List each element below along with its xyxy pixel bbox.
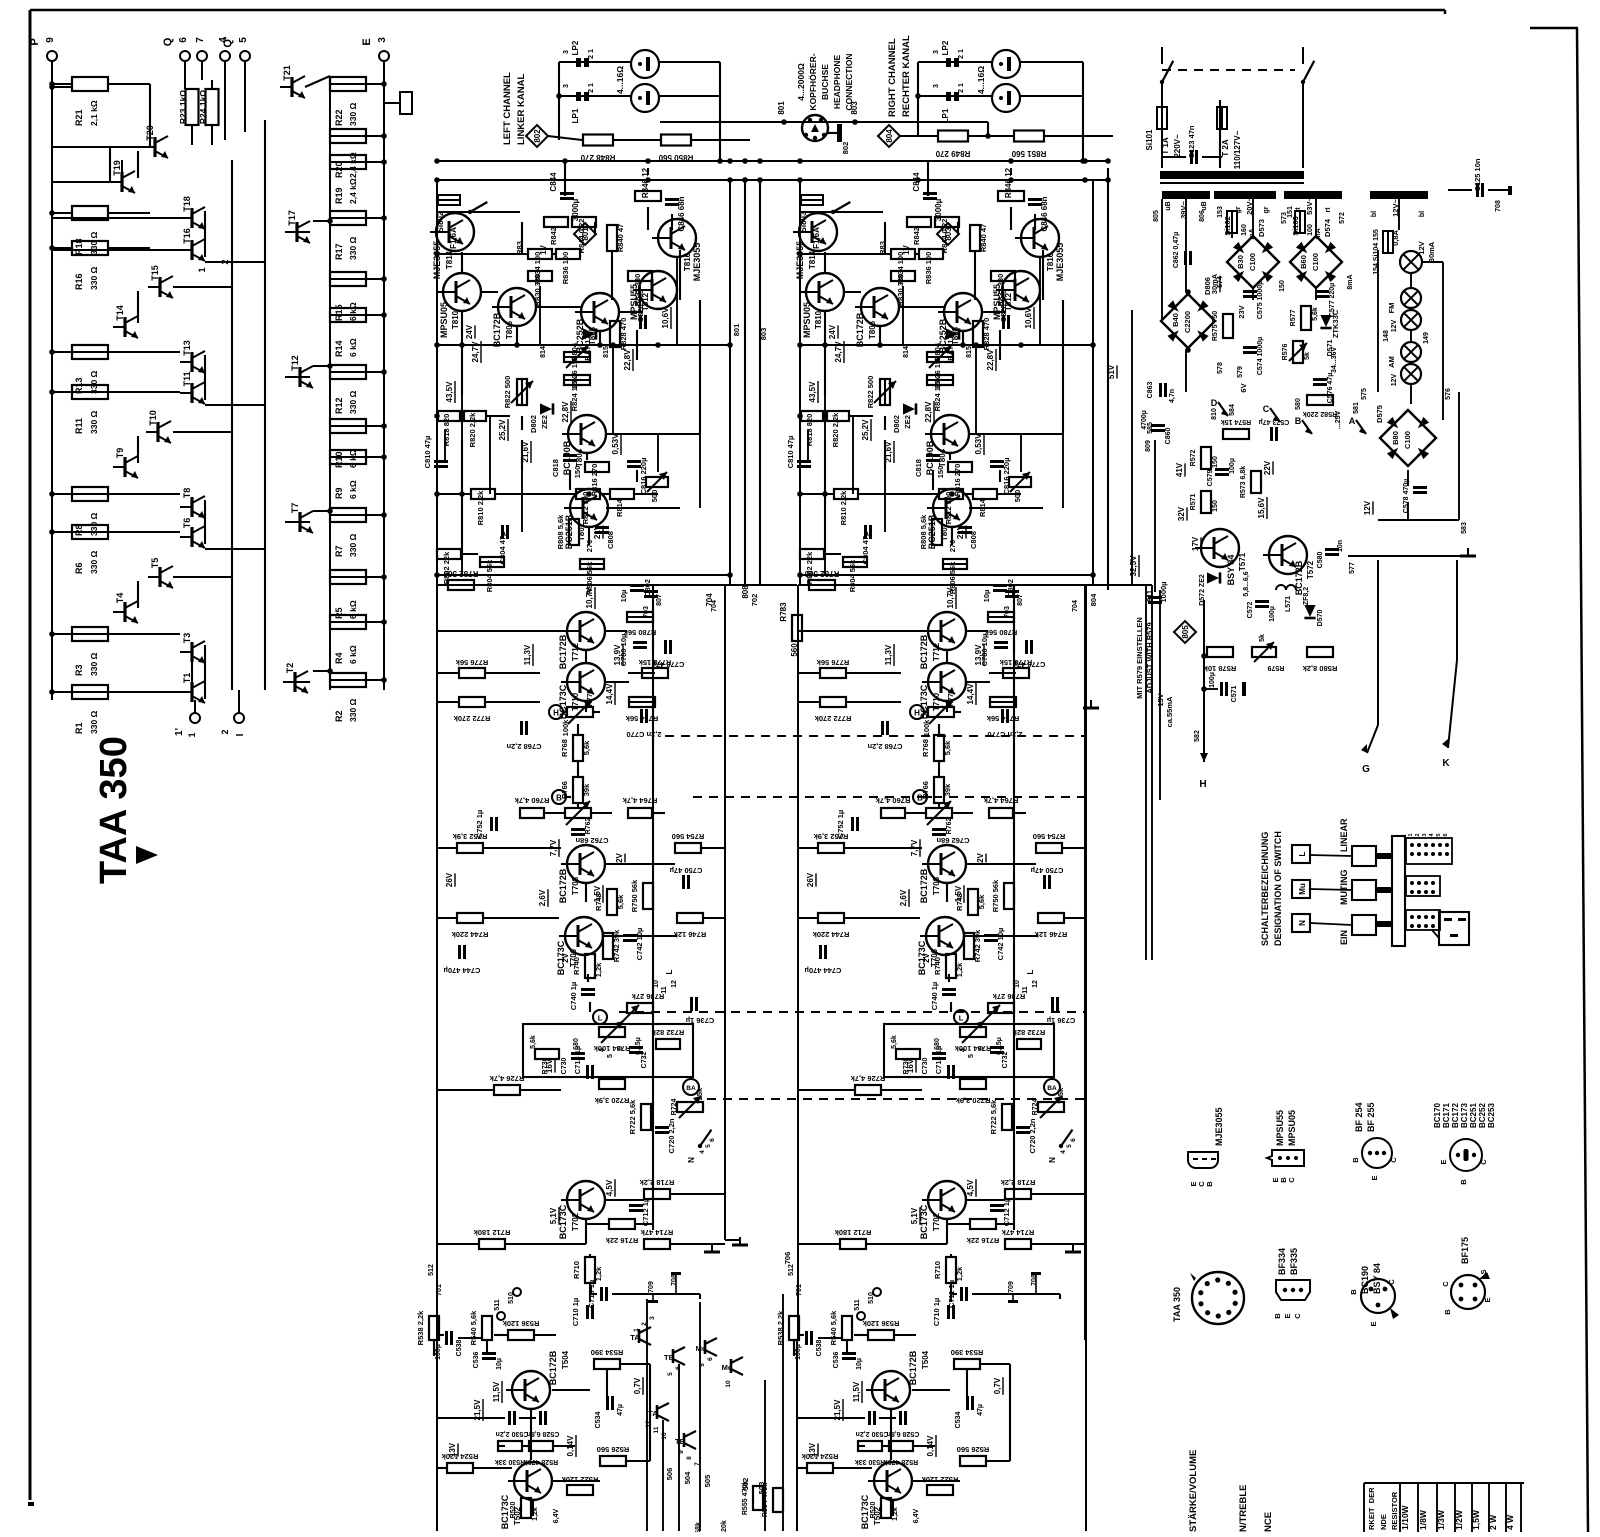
- svg-text:I: I: [235, 733, 246, 736]
- svg-text:BC172B: BC172B: [492, 312, 502, 347]
- svg-text:HEADPHONE: HEADPHONE: [832, 55, 842, 110]
- svg-text:R526 560: R526 560: [957, 1445, 990, 1454]
- svg-text:R522 120k: R522 120k: [561, 1475, 599, 1484]
- svg-text:25k: 25k: [695, 1087, 704, 1100]
- svg-text:T804: T804: [938, 448, 947, 467]
- svg-text:16V: 16V: [545, 1058, 554, 1073]
- svg-text:NCE: NCE: [1263, 1512, 1274, 1532]
- svg-text:R744 220k: R744 220k: [812, 930, 850, 939]
- svg-text:2 1: 2 1: [588, 83, 595, 93]
- svg-text:702: 702: [750, 594, 759, 607]
- svg-text:806: 806: [1199, 210, 1206, 222]
- svg-text:C750 47µ: C750 47µ: [670, 866, 703, 875]
- svg-text:C100: C100: [1403, 431, 1412, 449]
- svg-text:Si101: Si101: [1145, 129, 1154, 150]
- svg-text:RESISTOR: RESISTOR: [1390, 1491, 1399, 1530]
- svg-text:R716 22k: R716 22k: [605, 1236, 638, 1245]
- svg-text:L: L: [959, 1014, 964, 1023]
- svg-text:579: 579: [1237, 366, 1244, 378]
- svg-text:C2200: C2200: [1183, 311, 1192, 333]
- svg-text:100µ: 100µ: [1229, 458, 1236, 474]
- svg-text:T712: T712: [571, 642, 580, 661]
- svg-text:804: 804: [885, 129, 894, 143]
- svg-text:R772 270k: R772 270k: [453, 714, 491, 723]
- svg-text:R578 10k: R578 10k: [1203, 664, 1236, 673]
- svg-text:41V: 41V: [1175, 462, 1184, 477]
- svg-text:0,53V: 0,53V: [611, 433, 620, 455]
- svg-text:R524 120k: R524 120k: [441, 1452, 479, 1461]
- svg-text:C: C: [1389, 1157, 1398, 1163]
- svg-text:BC172B: BC172B: [855, 312, 865, 347]
- svg-text:5k: 5k: [1259, 634, 1266, 642]
- svg-text:150: 150: [1212, 500, 1219, 512]
- svg-text:3: 3: [563, 84, 570, 88]
- svg-text:151: 151: [1287, 206, 1294, 218]
- svg-text:2 W: 2 W: [1488, 1514, 1498, 1530]
- svg-text:1000µ: 1000µ: [1159, 581, 1168, 602]
- svg-text:1,5W: 1,5W: [1471, 1509, 1481, 1530]
- svg-text:11: 11: [1022, 986, 1029, 994]
- svg-text:C579: C579: [1207, 470, 1214, 487]
- svg-text:BC252: BC252: [1478, 1103, 1487, 1128]
- svg-text:R540 5,6k: R540 5,6k: [469, 1310, 478, 1345]
- svg-text:LP2: LP2: [941, 40, 950, 55]
- svg-text:R768: R768: [560, 739, 569, 757]
- svg-text:C: C: [1441, 1281, 1450, 1287]
- svg-text:B: B: [1351, 1157, 1360, 1163]
- svg-text:R762: R762: [946, 818, 953, 835]
- svg-text:C740 1µ: C740 1µ: [569, 982, 578, 1011]
- svg-text:R752 3,9k: R752 3,9k: [452, 832, 487, 841]
- svg-text:R534 390: R534 390: [591, 1348, 624, 1357]
- svg-text:R748: R748: [955, 893, 964, 911]
- svg-text:0,7V: 0,7V: [633, 1377, 642, 1394]
- svg-text:R760 4,7k: R760 4,7k: [514, 796, 549, 805]
- svg-text:BF334: BF334: [1277, 1248, 1287, 1275]
- svg-text:C750 47µ: C750 47µ: [1031, 866, 1064, 875]
- svg-text:P: P: [29, 38, 41, 45]
- svg-text:6: 6: [709, 1138, 716, 1142]
- svg-text:7: 7: [195, 37, 206, 43]
- svg-text:330 Ω: 330 Ω: [89, 266, 99, 290]
- svg-text:C863: C863: [1147, 382, 1154, 399]
- svg-text:5,1V: 5,1V: [549, 1207, 558, 1224]
- svg-text:12V: 12V: [1391, 319, 1398, 332]
- svg-text:uB: uB: [1165, 201, 1172, 210]
- svg-text:1: 1: [633, 1328, 640, 1332]
- svg-text:Mu: Mu: [1298, 883, 1307, 895]
- svg-text:12: 12: [671, 980, 678, 988]
- svg-text:12V: 12V: [1363, 500, 1372, 515]
- svg-text:Mo: Mo: [722, 1363, 733, 1372]
- svg-text:804: 804: [1089, 593, 1098, 606]
- svg-text:22V: 22V: [1263, 460, 1272, 475]
- svg-text:R524 120k: R524 120k: [801, 1452, 839, 1461]
- svg-text:BC170: BC170: [1433, 1103, 1442, 1128]
- svg-text:bl: bl: [1371, 211, 1378, 217]
- svg-text:T810: T810: [451, 310, 460, 329]
- svg-text:MJE3055: MJE3055: [795, 241, 805, 280]
- svg-text:C: C: [1387, 1279, 1396, 1285]
- svg-text:100k: 100k: [561, 719, 570, 737]
- svg-text:T3: T3: [182, 633, 192, 644]
- svg-text:R12: R12: [334, 397, 344, 414]
- svg-text:R577: R577: [1290, 310, 1297, 327]
- svg-text:2,6V: 2,6V: [538, 889, 547, 906]
- svg-text:R851 560: R851 560: [1011, 149, 1046, 158]
- svg-text:R580 8,2k: R580 8,2k: [1302, 664, 1337, 673]
- svg-text:C100: C100: [1248, 253, 1257, 271]
- svg-text:BC172B: BC172B: [548, 1350, 558, 1385]
- svg-text:R754 560: R754 560: [1033, 832, 1066, 841]
- svg-text:R724: R724: [671, 1099, 678, 1116]
- svg-text:BC172B: BC172B: [558, 634, 568, 669]
- svg-text:C768 2,2n: C768 2,2n: [867, 742, 902, 751]
- svg-text:580: 580: [1295, 398, 1302, 410]
- svg-text:R746 12k: R746 12k: [1034, 930, 1067, 939]
- svg-text:R810 2,2k: R810 2,2k: [839, 490, 848, 525]
- svg-text:D570: D570: [1317, 610, 1324, 627]
- svg-text:11,5V: 11,5V: [492, 1381, 501, 1402]
- svg-text:4...16Ω: 4...16Ω: [976, 66, 986, 94]
- svg-text:E: E: [1483, 1297, 1492, 1302]
- svg-text:B30: B30: [1236, 255, 1245, 269]
- svg-text:26V: 26V: [445, 872, 454, 887]
- svg-text:25,2V: 25,2V: [861, 419, 870, 441]
- svg-text:R740: R740: [933, 957, 942, 975]
- svg-text:330 Ω: 330 Ω: [348, 236, 358, 260]
- svg-text:R770: R770: [948, 690, 955, 707]
- svg-text:2,4 kΩ: 2,4 kΩ: [348, 178, 358, 204]
- svg-text:1/8W: 1/8W: [1418, 1509, 1428, 1530]
- svg-text:R750 56k: R750 56k: [630, 879, 639, 912]
- svg-text:T702: T702: [571, 1212, 580, 1231]
- svg-text:R822 500: R822 500: [866, 376, 875, 409]
- svg-text:T7: T7: [290, 503, 300, 514]
- svg-text:MJE3055: MJE3055: [432, 241, 442, 280]
- svg-text:100k: 100k: [922, 719, 931, 737]
- svg-text:R724: R724: [1032, 1099, 1039, 1116]
- svg-text:R579: R579: [1268, 664, 1285, 671]
- svg-text:L: L: [665, 969, 674, 974]
- svg-text:16V: 16V: [906, 1058, 915, 1073]
- svg-text:11,5V: 11,5V: [852, 1381, 861, 1402]
- svg-text:1: 1: [197, 267, 207, 272]
- svg-text:581: 581: [1353, 402, 1360, 414]
- svg-text:bl: bl: [1419, 211, 1426, 217]
- svg-text:T6: T6: [182, 518, 192, 529]
- svg-text:C762 68n: C762 68n: [575, 836, 608, 845]
- svg-text:5: 5: [1436, 833, 1442, 836]
- svg-text:R8: R8: [74, 524, 84, 536]
- svg-text:1: 1: [1408, 833, 1414, 836]
- svg-text:R822 500: R822 500: [503, 376, 512, 409]
- svg-text:R714 47k: R714 47k: [1001, 1228, 1034, 1237]
- svg-text:47µ: 47µ: [617, 1404, 624, 1416]
- svg-text:2 1: 2 1: [958, 83, 965, 93]
- svg-text:R573 6,8k: R573 6,8k: [1240, 466, 1247, 498]
- svg-text:B40: B40: [1171, 313, 1180, 327]
- svg-text:708: 708: [671, 1274, 678, 1286]
- svg-text:5: 5: [1066, 1144, 1073, 1148]
- svg-text:C844: C844: [549, 172, 558, 192]
- svg-text:802: 802: [841, 142, 850, 155]
- svg-text:39k: 39k: [582, 783, 591, 796]
- svg-text:807: 807: [1017, 594, 1024, 606]
- svg-text:5,6k: 5,6k: [943, 740, 952, 755]
- svg-text:T702: T702: [932, 1212, 941, 1231]
- svg-text:R571: R571: [1190, 494, 1197, 511]
- svg-text:LINKER KANAL: LINKER KANAL: [516, 74, 527, 145]
- svg-text:R716 22k: R716 22k: [966, 1236, 999, 1245]
- svg-text:T710: T710: [571, 692, 580, 711]
- svg-text:R572: R572: [1190, 450, 1197, 467]
- svg-text:6: 6: [978, 1046, 985, 1050]
- svg-text:ZE2: ZE2: [903, 415, 912, 429]
- svg-text:1,2k: 1,2k: [955, 962, 964, 977]
- svg-text:10: 10: [1014, 980, 1021, 988]
- svg-text:807: 807: [656, 594, 663, 606]
- svg-text:8mA: 8mA: [1347, 274, 1354, 289]
- svg-text:120k: 120k: [721, 1520, 728, 1532]
- svg-text:47µ: 47µ: [977, 1404, 984, 1416]
- svg-text:2 1: 2 1: [588, 49, 595, 59]
- svg-text:1: 1: [187, 732, 197, 737]
- svg-text:C744 470µ: C744 470µ: [805, 966, 842, 975]
- svg-text:RKEIT DER: RKEIT DER: [1367, 1487, 1376, 1530]
- svg-text:5,6k: 5,6k: [891, 1035, 898, 1049]
- svg-text:T2: T2: [285, 663, 295, 674]
- svg-text:701: 701: [796, 1284, 803, 1296]
- svg-text:BC172B: BC172B: [919, 868, 929, 903]
- svg-text:KOPFHÖRER-: KOPFHÖRER-: [808, 53, 818, 110]
- svg-text:T8: T8: [182, 488, 192, 499]
- svg-text:BC172B: BC172B: [558, 868, 568, 903]
- svg-text:R540 5,6k: R540 5,6k: [829, 1310, 838, 1345]
- svg-text:6 kΩ: 6 kΩ: [348, 645, 358, 664]
- svg-text:8: 8: [686, 1456, 693, 1460]
- svg-text:5: 5: [667, 1372, 674, 1376]
- svg-text:C575 1000µ: C575 1000µ: [1257, 281, 1264, 319]
- svg-text:R710: R710: [933, 1261, 942, 1279]
- svg-text:R820 2,2k: R820 2,2k: [831, 412, 840, 447]
- svg-text:T21: T21: [282, 65, 292, 81]
- svg-text:2: 2: [220, 729, 230, 734]
- svg-text:506: 506: [665, 1468, 674, 1481]
- svg-text:Q: Q: [162, 37, 174, 46]
- svg-text:R772 270k: R772 270k: [814, 714, 852, 723]
- svg-text:TA: TA: [630, 1333, 640, 1342]
- svg-text:1/2W: 1/2W: [1454, 1509, 1464, 1530]
- svg-text:C732: C732: [1002, 1052, 1009, 1069]
- svg-text:T16: T16: [182, 228, 192, 244]
- svg-text:150: 150: [573, 466, 582, 479]
- svg-text:C762 68n: C762 68n: [936, 836, 969, 845]
- svg-text:C730: C730: [922, 1058, 929, 1075]
- svg-text:6 kΩ: 6 kΩ: [348, 480, 358, 499]
- svg-text:ZE2: ZE2: [540, 415, 549, 429]
- svg-text:AM: AM: [1387, 356, 1396, 368]
- svg-text:10n: 10n: [1337, 540, 1344, 552]
- svg-text:C862 0,47µ: C862 0,47µ: [1173, 232, 1180, 268]
- svg-text:801: 801: [732, 324, 741, 337]
- svg-text:T816: T816: [683, 252, 692, 271]
- svg-text:ca.55mA: ca.55mA: [1165, 696, 1174, 727]
- svg-text:150: 150: [1212, 456, 1219, 468]
- svg-text:R19: R19: [334, 187, 344, 204]
- svg-text:500: 500: [1013, 490, 1022, 503]
- svg-text:10,7V: 10,7V: [946, 587, 955, 609]
- svg-text:R10: R10: [334, 451, 344, 468]
- svg-text:51V: 51V: [1107, 364, 1116, 379]
- svg-text:1,2k: 1,2k: [594, 1266, 603, 1281]
- svg-text:C720 2,2n: C720 2,2n: [667, 1118, 676, 1153]
- svg-text:C538: C538: [456, 1340, 463, 1357]
- svg-text:R836 100: R836 100: [561, 252, 570, 285]
- svg-text:T712: T712: [932, 642, 941, 661]
- svg-text:R520: R520: [510, 1502, 517, 1519]
- svg-text:LINEAR: LINEAR: [1339, 818, 1349, 852]
- svg-text:MJE3055: MJE3055: [1214, 1107, 1224, 1146]
- svg-text:MJE3055: MJE3055: [1055, 243, 1065, 282]
- svg-text:Q': Q': [222, 36, 234, 48]
- svg-text:30mA: 30mA: [1210, 273, 1219, 294]
- svg-text:3: 3: [563, 50, 570, 54]
- svg-text:C536: C536: [473, 1352, 480, 1369]
- svg-text:2 1: 2 1: [958, 49, 965, 59]
- svg-text:6 kΩ: 6 kΩ: [348, 600, 358, 619]
- svg-text:10µ: 10µ: [856, 1358, 863, 1370]
- svg-text:gr: gr: [1263, 206, 1270, 213]
- svg-text:R744 220k: R744 220k: [451, 930, 489, 939]
- svg-text:10µ: 10µ: [496, 1358, 503, 1370]
- svg-text:TB: TB: [675, 1437, 686, 1446]
- svg-text:5: 5: [238, 37, 249, 43]
- svg-text:C574 1000µ: C574 1000µ: [1257, 337, 1264, 375]
- svg-text:LP1: LP1: [571, 108, 580, 123]
- svg-text:814: 814: [540, 346, 547, 358]
- svg-text:3: 3: [1422, 833, 1428, 836]
- svg-text:22,8V: 22,8V: [986, 349, 995, 371]
- svg-text:FM: FM: [1387, 303, 1396, 314]
- svg-text:T804: T804: [575, 448, 584, 467]
- svg-text:BF175: BF175: [1460, 1237, 1470, 1264]
- svg-text:R526 560: R526 560: [597, 1445, 630, 1454]
- svg-text:BF 255: BF 255: [1366, 1102, 1376, 1132]
- svg-text:BC253: BC253: [1487, 1103, 1496, 1128]
- svg-text:585: 585: [1147, 422, 1154, 434]
- svg-text:D802: D802: [892, 415, 901, 433]
- svg-text:R522 120k: R522 120k: [921, 1475, 959, 1484]
- svg-text:R754 560: R754 560: [672, 832, 705, 841]
- svg-text:3: 3: [649, 1316, 656, 1320]
- svg-text:R720 3,9k: R720 3,9k: [955, 1096, 990, 1105]
- svg-text:D575: D575: [1375, 405, 1384, 423]
- svg-text:MIT R579 EINSTELLEN: MIT R579 EINSTELLEN: [1135, 617, 1144, 699]
- svg-text:330 Ω: 330 Ω: [89, 710, 99, 734]
- svg-text:C125 10n: C125 10n: [1473, 158, 1482, 191]
- svg-text:R530 33k: R530 33k: [495, 1458, 525, 1465]
- svg-text:R21: R21: [74, 109, 84, 126]
- svg-text:578: 578: [1217, 362, 1224, 374]
- svg-text:153: 153: [1217, 206, 1224, 218]
- svg-text:10,6V: 10,6V: [1024, 307, 1033, 329]
- svg-text:E: E: [361, 38, 373, 45]
- svg-text:330 Ω: 330 Ω: [89, 370, 99, 394]
- svg-text:L: L: [1026, 969, 1035, 974]
- svg-text:572: 572: [1339, 212, 1346, 224]
- svg-text:2V: 2V: [615, 852, 624, 862]
- svg-text:43,5V: 43,5V: [445, 381, 454, 403]
- svg-text:ZF8,2: ZF8,2: [1303, 587, 1310, 605]
- svg-text:330 Ω: 330 Ω: [348, 533, 358, 557]
- svg-text:330 Ω: 330 Ω: [348, 102, 358, 126]
- svg-text:SCHALTERBEZEICHNUNG: SCHALTERBEZEICHNUNG: [1260, 832, 1270, 946]
- svg-text:330 Ω: 330 Ω: [89, 550, 99, 574]
- svg-text:810: 810: [1211, 408, 1218, 420]
- svg-text:R740: R740: [572, 957, 581, 975]
- svg-text:708: 708: [1031, 1274, 1038, 1286]
- svg-text:12V: 12V: [1391, 373, 1398, 386]
- svg-text:R778 15k: R778 15k: [638, 658, 671, 667]
- svg-text:32V: 32V: [1177, 506, 1186, 521]
- svg-text:R17: R17: [334, 243, 344, 260]
- svg-text:4: 4: [699, 1150, 706, 1154]
- svg-text:12V: 12V: [1417, 241, 1426, 254]
- svg-text:H: H: [1199, 779, 1206, 790]
- svg-text:R776 56k: R776 56k: [455, 658, 488, 667]
- svg-text:R575 750: R575 750: [1212, 311, 1219, 341]
- svg-text:2V: 2V: [976, 852, 985, 862]
- svg-text:R5: R5: [334, 607, 344, 619]
- svg-text:100µ: 100µ: [1269, 606, 1276, 622]
- svg-text:10,6V: 10,6V: [661, 307, 670, 329]
- svg-text:R842: R842: [912, 227, 921, 245]
- svg-text:4,5V: 4,5V: [966, 1179, 975, 1196]
- svg-text:B80: B80: [1391, 431, 1400, 445]
- svg-text:30mA: 30mA: [1427, 241, 1436, 262]
- svg-text:R712 180k: R712 180k: [834, 1228, 872, 1237]
- svg-text:C: C: [1287, 1177, 1296, 1183]
- svg-text:BC172B: BC172B: [908, 1350, 918, 1385]
- svg-text:5,6k: 5,6k: [616, 894, 625, 909]
- svg-text:R840 47: R840 47: [616, 224, 625, 252]
- svg-text:10,7V: 10,7V: [585, 587, 594, 609]
- svg-text:C730: C730: [561, 1058, 568, 1075]
- svg-text:C718 1µ: C718 1µ: [934, 1046, 943, 1075]
- svg-text:C123 47n: C123 47n: [1187, 125, 1196, 158]
- svg-text:573: 573: [1281, 212, 1288, 224]
- svg-text:R782 560: R782 560: [443, 569, 478, 578]
- svg-text:32,5V: 32,5V: [1129, 555, 1138, 577]
- svg-text:R849 270: R849 270: [935, 149, 970, 158]
- svg-text:D573: D573: [1257, 219, 1266, 237]
- svg-text:504: 504: [683, 1471, 692, 1484]
- svg-text:704: 704: [1072, 600, 1079, 612]
- svg-text:1/10W: 1/10W: [1400, 1504, 1410, 1530]
- svg-text:T12: T12: [290, 355, 300, 371]
- svg-text:11: 11: [661, 986, 668, 994]
- svg-text:T571: T571: [1238, 552, 1247, 571]
- svg-text:C808: C808: [606, 531, 615, 549]
- svg-text:R536 120k: R536 120k: [502, 1319, 540, 1328]
- svg-text:6: 6: [178, 37, 189, 43]
- svg-text:803: 803: [759, 328, 768, 341]
- svg-text:11: 11: [653, 1426, 660, 1433]
- svg-text:708: 708: [1495, 200, 1502, 212]
- svg-text:H: H: [914, 709, 920, 718]
- svg-text:rt: rt: [1325, 207, 1332, 213]
